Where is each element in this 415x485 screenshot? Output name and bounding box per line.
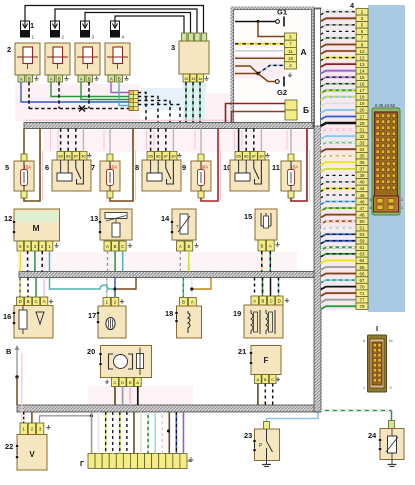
svg-text:59: 59 (359, 239, 365, 244)
svg-text:A: A (80, 76, 83, 81)
svg-text:39: 39 (359, 173, 365, 178)
svg-text:46: 46 (359, 199, 365, 204)
svg-text:5: 5 (369, 198, 371, 202)
svg-text:D: D (278, 298, 281, 303)
svg-text:15: 15 (244, 212, 252, 221)
svg-text:16: 16 (288, 56, 293, 61)
svg-text:1: 1 (363, 386, 365, 390)
svg-text:2: 2 (401, 198, 403, 202)
svg-text:A: A (110, 76, 113, 81)
svg-text:79: 79 (359, 304, 365, 309)
svg-text:6: 6 (45, 163, 49, 172)
svg-text:85: 85 (58, 154, 63, 159)
svg-text:13: 13 (359, 62, 365, 67)
svg-text:87: 87 (74, 154, 79, 159)
svg-text:B: B (118, 76, 121, 81)
svg-text:36: 36 (359, 160, 365, 165)
svg-text:48: 48 (359, 212, 365, 217)
svg-text:19: 19 (359, 101, 365, 106)
svg-text:D: D (121, 380, 124, 385)
svg-text:33: 33 (359, 140, 365, 145)
svg-text:B: B (262, 298, 265, 303)
svg-text:F: F (264, 356, 269, 365)
svg-text:B: B (260, 243, 263, 248)
svg-text:30: 30 (259, 154, 264, 159)
svg-text:35: 35 (359, 154, 365, 159)
svg-text:M: M (32, 223, 39, 233)
svg-text:87: 87 (164, 154, 169, 159)
svg-text:I: I (376, 324, 378, 333)
svg-text:85: 85 (148, 154, 153, 159)
svg-text:B: B (27, 299, 30, 304)
svg-text:A: A (179, 244, 182, 249)
svg-text:7: 7 (91, 163, 95, 172)
svg-text:12: 12 (359, 55, 365, 60)
svg-text:V: V (29, 450, 35, 459)
svg-text:2: 2 (7, 45, 11, 54)
svg-text:G1: G1 (277, 8, 287, 17)
svg-text:63: 63 (359, 252, 365, 257)
svg-text:67: 67 (359, 278, 365, 283)
svg-text:A: A (50, 76, 53, 81)
svg-text:16: 16 (3, 312, 11, 321)
svg-text:86: 86 (66, 154, 71, 159)
svg-text:1: 1 (401, 206, 403, 210)
svg-text:18: 18 (165, 309, 173, 318)
svg-text:C: C (114, 380, 117, 385)
svg-text:6 25 44 63: 6 25 44 63 (375, 103, 395, 108)
svg-text:14: 14 (161, 214, 170, 223)
svg-text:20: 20 (359, 108, 365, 113)
svg-text:A: A (269, 243, 272, 248)
svg-text:B: B (129, 380, 132, 385)
svg-text:10: 10 (359, 49, 365, 54)
svg-text:18: 18 (359, 95, 365, 100)
svg-text:A: A (253, 298, 256, 303)
svg-text:C: C (271, 377, 274, 382)
svg-text:T: T (176, 224, 179, 229)
svg-text:8: 8 (363, 339, 365, 343)
svg-text:40: 40 (359, 180, 365, 185)
svg-text:A: A (136, 380, 139, 385)
svg-text:1: 1 (30, 21, 34, 30)
svg-text:B: B (114, 244, 117, 249)
svg-text:51: 51 (359, 226, 365, 231)
svg-text:61: 61 (359, 245, 365, 250)
svg-text:4: 4 (369, 206, 371, 210)
svg-text:22: 22 (5, 442, 13, 451)
svg-text:5: 5 (5, 163, 9, 172)
svg-text:A: A (106, 244, 109, 249)
svg-text:15: 15 (359, 75, 365, 80)
svg-text:9: 9 (182, 163, 186, 172)
svg-text:B: B (88, 76, 91, 81)
svg-text:А: А (301, 47, 307, 57)
svg-text:30: 30 (171, 154, 176, 159)
svg-text:3: 3 (171, 43, 175, 52)
svg-text:29: 29 (359, 121, 365, 126)
svg-text:B: B (187, 244, 190, 249)
svg-text:45: 45 (359, 193, 365, 198)
svg-text:A: A (191, 300, 194, 305)
svg-text:13: 13 (90, 214, 98, 223)
svg-text:85: 85 (236, 154, 241, 159)
svg-text:A: A (257, 377, 260, 382)
svg-text:70: 70 (359, 284, 365, 289)
svg-text:87: 87 (252, 154, 257, 159)
svg-text:15A: 15A (291, 165, 299, 170)
svg-text:15A: 15A (24, 165, 32, 170)
svg-text:D: D (19, 299, 22, 304)
svg-text:86: 86 (156, 154, 161, 159)
svg-text:77: 77 (359, 297, 365, 302)
svg-text:9: 9 (389, 386, 391, 390)
svg-text:C: C (121, 244, 124, 249)
svg-text:86: 86 (244, 154, 249, 159)
svg-text:19: 19 (233, 309, 241, 318)
svg-text:32: 32 (359, 134, 365, 139)
svg-text:71: 71 (359, 291, 365, 296)
svg-text:50A: 50A (201, 165, 209, 170)
svg-text:21: 21 (238, 347, 246, 356)
svg-text:50: 50 (359, 219, 365, 224)
svg-text:Б: Б (303, 105, 309, 115)
svg-text:31: 31 (359, 127, 365, 132)
svg-text:C: C (35, 299, 38, 304)
svg-text:64: 64 (359, 258, 365, 263)
svg-text:B: B (28, 76, 31, 81)
svg-text:A: A (43, 299, 46, 304)
svg-text:16: 16 (388, 339, 392, 343)
svg-text:15A: 15A (110, 165, 118, 170)
svg-text:G2: G2 (277, 88, 287, 97)
svg-text:17: 17 (359, 88, 365, 93)
svg-text:В: В (6, 347, 11, 356)
svg-text:11: 11 (272, 163, 280, 172)
svg-text:B: B (264, 377, 267, 382)
svg-text:37: 37 (359, 167, 365, 172)
svg-text:47: 47 (359, 206, 365, 211)
svg-text:30: 30 (81, 154, 86, 159)
svg-text:53: 53 (359, 232, 365, 237)
svg-text:34: 34 (359, 147, 365, 152)
svg-text:B: B (182, 300, 185, 305)
svg-text:15: 15 (191, 77, 195, 81)
svg-text:11: 11 (288, 49, 293, 54)
svg-text:12: 12 (4, 214, 12, 223)
svg-text:20: 20 (87, 347, 95, 356)
svg-text:44: 44 (359, 186, 365, 191)
svg-text:66: 66 (359, 271, 365, 276)
svg-text:B: B (58, 76, 61, 81)
svg-text:65: 65 (359, 265, 365, 270)
svg-text:16: 16 (359, 82, 365, 87)
svg-text:C: C (270, 298, 273, 303)
svg-text:27: 27 (359, 114, 365, 119)
svg-text:A: A (20, 76, 23, 81)
svg-text:23: 23 (244, 431, 252, 440)
svg-text:8: 8 (135, 163, 139, 172)
svg-text:17: 17 (88, 311, 96, 320)
svg-text:14: 14 (359, 68, 365, 73)
svg-text:24: 24 (368, 431, 377, 440)
